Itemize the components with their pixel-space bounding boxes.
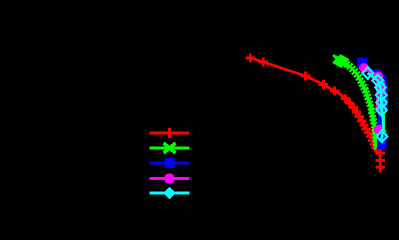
- legend sample magenta: [150, 173, 190, 183]
- green curve (cross markers): [333, 55, 386, 150]
- legend sample cyan: [150, 187, 190, 200]
- cyan curve (open diamond markers): [362, 67, 387, 142]
- legend sample red: [150, 128, 190, 138]
- red curve (plus markers): [246, 53, 385, 172]
- legend sample blue: [150, 158, 190, 168]
- magenta curve (circle markers): [359, 63, 386, 134]
- blue curve (square markers): [357, 58, 388, 150]
- legend sample green: [150, 143, 190, 153]
